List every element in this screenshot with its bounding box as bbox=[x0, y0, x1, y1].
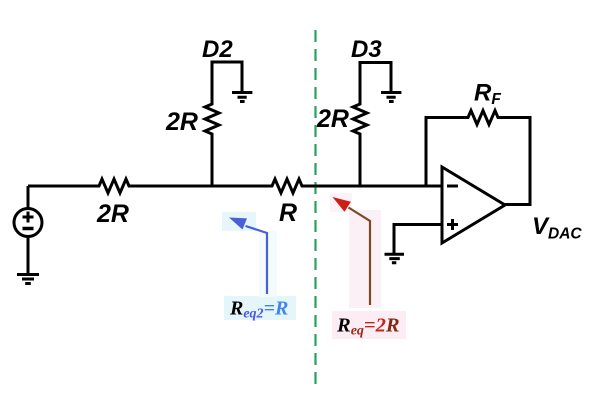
svg-text:D3: D3 bbox=[351, 36, 382, 63]
svg-text:Req=2R: Req=2R bbox=[336, 315, 400, 339]
svg-text:2R: 2R bbox=[96, 200, 129, 228]
svg-text:D2: D2 bbox=[202, 36, 233, 63]
svg-text:2R: 2R bbox=[165, 108, 198, 136]
svg-text:R: R bbox=[279, 199, 297, 227]
svg-text:VDAC: VDAC bbox=[532, 213, 582, 243]
svg-text:RF: RF bbox=[474, 80, 501, 109]
svg-text:2R: 2R bbox=[316, 105, 349, 133]
